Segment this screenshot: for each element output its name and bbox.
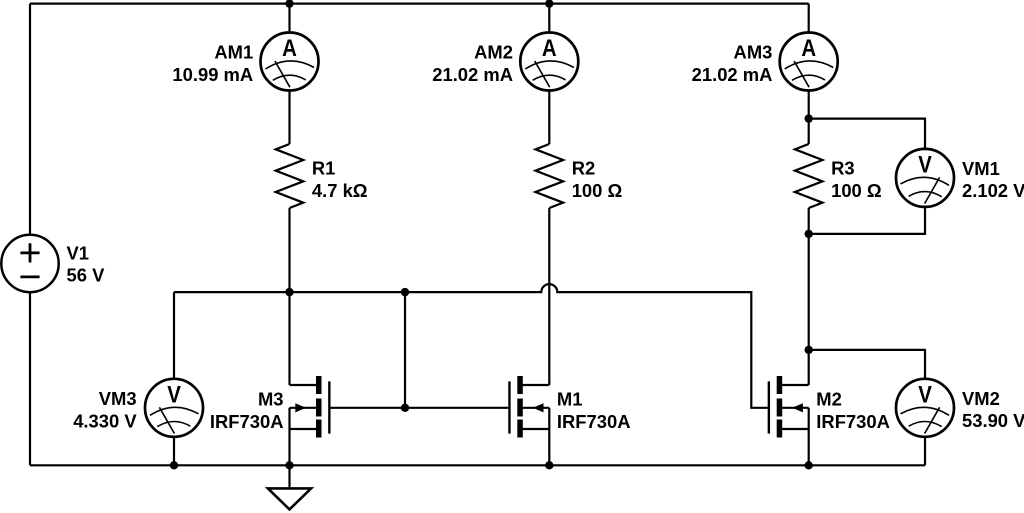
- junction bottom rail / M1 source: [545, 461, 553, 469]
- wire R3 to M2 drain: [808, 208, 810, 385]
- svg-text:10.99 mA: 10.99 mA: [172, 64, 253, 85]
- label VM1 value: [962, 158, 1024, 201]
- svg-text:21.02 mA: 21.02 mA: [692, 64, 773, 85]
- svg-text:AM2: AM2: [474, 42, 513, 63]
- junction bottom rail / M3 source: [285, 461, 293, 469]
- svg-text:A: A: [542, 34, 557, 61]
- wire R1 to M3 drain: [288, 208, 290, 385]
- wire AM2 to R2: [548, 91, 550, 145]
- label R1 value: [312, 158, 368, 201]
- svg-text:2.102 V: 2.102 V: [962, 180, 1024, 201]
- voltmeter VM3: [145, 379, 203, 437]
- voltmeter VM2: [896, 379, 954, 437]
- svg-text:AM3: AM3: [734, 42, 773, 63]
- junction R3 bottom / VM1: [805, 230, 813, 238]
- junction bottom rail / VM3: [170, 461, 178, 469]
- svg-text:VM3: VM3: [99, 388, 137, 409]
- junction gate bus / gate node drop: [401, 288, 409, 296]
- wire branch2 top: [548, 4, 550, 33]
- svg-text:M3: M3: [258, 389, 284, 410]
- svg-text:53.90 V: 53.90 V: [962, 410, 1024, 431]
- junction M2 drain / VM2: [805, 346, 813, 354]
- ground: [268, 465, 311, 509]
- svg-text:56 V: 56 V: [67, 265, 106, 286]
- label VM3 value: [73, 388, 137, 431]
- svg-text:V: V: [918, 381, 932, 408]
- label VM2 value: [962, 388, 1024, 431]
- wire VM1 bottom: [809, 207, 925, 234]
- wire M3 gate to node: [331, 407, 406, 409]
- svg-text:R2: R2: [572, 158, 596, 179]
- resistor R2: [536, 144, 564, 208]
- svg-text:M1: M1: [557, 389, 583, 410]
- wire M2 source down: [808, 408, 810, 466]
- svg-text:21.02 mA: 21.02 mA: [432, 64, 513, 85]
- left wire (V1 branch): [29, 4, 31, 466]
- junction R3 top / VM1: [805, 114, 813, 122]
- svg-text:V1: V1: [67, 242, 90, 263]
- svg-text:4.7 kΩ: 4.7 kΩ: [312, 180, 368, 201]
- label M2 value: [816, 389, 890, 432]
- wire gate bus (VM3 top to M2 gate) with hop over branch2: [174, 284, 768, 408]
- wire VM1 loop: [809, 119, 925, 149]
- label AM3 value: [692, 42, 773, 85]
- label R2 value: [572, 158, 623, 201]
- wire gate node drop: [404, 292, 406, 408]
- svg-text:R1: R1: [312, 158, 336, 179]
- wire M1 source down: [548, 408, 550, 466]
- bottom rail: [30, 464, 925, 466]
- voltage source V1: [1, 235, 58, 292]
- voltmeter VM1: [896, 149, 954, 207]
- wire branch1 top: [288, 4, 290, 33]
- top rail: [30, 2, 809, 4]
- svg-text:IRF730A: IRF730A: [210, 411, 284, 432]
- label V1 value: [67, 242, 106, 285]
- wire AM1 to R1: [288, 91, 290, 145]
- junction top rail / branch1: [285, 0, 293, 8]
- svg-text:IRF730A: IRF730A: [557, 411, 631, 432]
- wire VM3 to bottom rail: [173, 437, 175, 466]
- resistor R1: [276, 144, 304, 208]
- junction bottom rail / M2 source: [805, 461, 813, 469]
- junction gate bus / M3 drain: [285, 288, 293, 296]
- wire VM2 bottom: [924, 437, 926, 466]
- wire AM3 to R3: [808, 91, 810, 145]
- svg-text:4.330 V: 4.330 V: [73, 411, 137, 432]
- wire R2 to M1 drain: [548, 208, 550, 385]
- svg-text:M2: M2: [816, 389, 842, 410]
- wire VM3 to gate bus: [173, 292, 175, 379]
- junction top rail / branch2: [545, 0, 553, 8]
- transistor M1: [509, 376, 549, 438]
- svg-text:A: A: [282, 34, 297, 61]
- ammeter AM3: [780, 33, 838, 91]
- svg-text:R3: R3: [831, 158, 855, 179]
- svg-text:IRF730A: IRF730A: [816, 411, 890, 432]
- wire gate node to M1 gate: [405, 407, 508, 409]
- label M3 value: [210, 389, 284, 432]
- label AM2 value: [432, 42, 513, 85]
- label M1 value: [557, 389, 631, 432]
- svg-text:V: V: [918, 151, 932, 178]
- svg-text:V: V: [167, 381, 181, 408]
- label R3 value: [831, 158, 882, 201]
- transistor M2: [769, 376, 809, 438]
- label AM1 value: [172, 42, 253, 85]
- svg-text:AM1: AM1: [214, 42, 253, 63]
- resistor R3: [795, 144, 823, 208]
- node gate (M3 gate / M1 gate): [401, 404, 409, 412]
- transistor M3: [290, 376, 330, 438]
- svg-text:VM1: VM1: [962, 158, 1000, 179]
- svg-text:A: A: [801, 34, 816, 61]
- svg-text:100 Ω: 100 Ω: [831, 180, 882, 201]
- wire M3 source down: [288, 408, 290, 466]
- wire VM2 loop: [809, 350, 925, 379]
- ammeter AM2: [520, 33, 578, 91]
- wire branch3 top: [808, 4, 810, 33]
- svg-text:100 Ω: 100 Ω: [572, 180, 623, 201]
- ammeter AM1: [261, 33, 319, 91]
- svg-text:VM2: VM2: [962, 388, 1000, 409]
